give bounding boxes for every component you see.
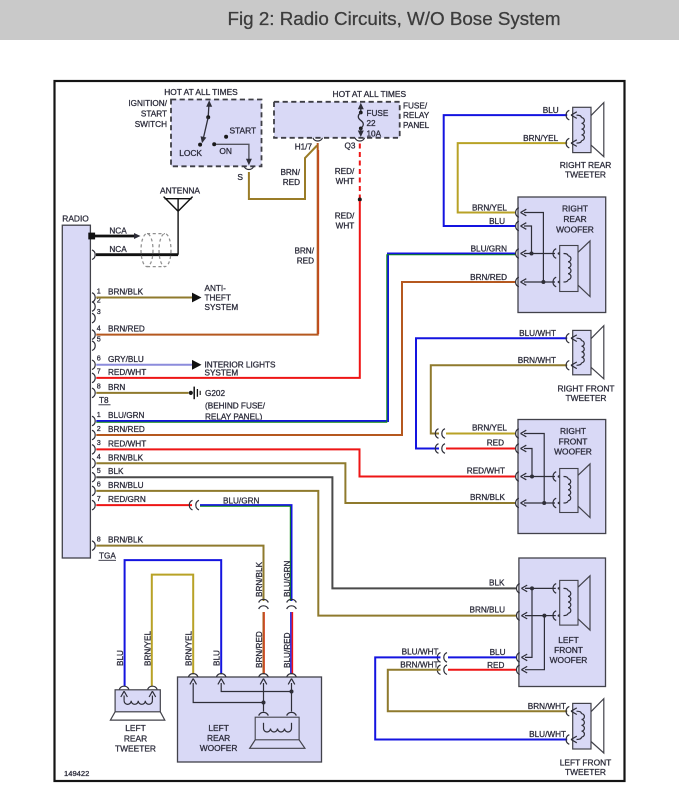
right rear woofer internal wiring BLU to BLU/GRN xyxy=(524,226,532,254)
svg-text:LEFT: LEFT xyxy=(125,723,145,733)
fuse/relay panel box xyxy=(274,102,400,138)
right rear tweeter speaker xyxy=(573,107,591,152)
svg-text:BRN/YEL: BRN/YEL xyxy=(143,631,152,666)
wire BRN/YEL into right front woofer xyxy=(446,433,515,435)
arrow to interior lights system xyxy=(192,360,202,370)
right rear woofer internal wiring BRN/YEL to BRN/RED xyxy=(524,213,543,283)
left rear woofer speaker xyxy=(259,712,269,715)
svg-text:6: 6 xyxy=(97,480,101,489)
svg-text:BRN/BLK: BRN/BLK xyxy=(108,453,144,462)
left front woofer box xyxy=(519,558,606,687)
wire BRN/RED from H1/7 down to radio pin T8-4 xyxy=(96,143,317,335)
radio pin TGA-5 xyxy=(92,472,95,482)
svg-text:10A: 10A xyxy=(367,130,382,139)
svg-text:BRN/YEL: BRN/YEL xyxy=(523,134,558,143)
svg-text:149422: 149422 xyxy=(64,769,89,778)
svg-text:REAR: REAR xyxy=(207,733,230,743)
svg-text:WHT: WHT xyxy=(336,177,355,186)
wire BRN/WHT right front woofer loop to tweeter xyxy=(431,365,567,433)
left front woofer internal wiring BRN/BLU to RED xyxy=(542,614,546,618)
svg-text:8: 8 xyxy=(97,382,101,391)
svg-text:8: 8 xyxy=(97,534,101,543)
wire BRN/BLK radio T8-1 to anti-theft system xyxy=(96,297,194,299)
wire BRN/BLK radio TGA-4 to right front woofer xyxy=(96,463,515,503)
inline connector BRN/WHT to RED (left front) xyxy=(437,665,440,675)
antenna symbol xyxy=(164,197,193,255)
svg-text:BRN/RED: BRN/RED xyxy=(108,325,145,334)
svg-text:START: START xyxy=(141,110,167,119)
wire BLU into left front woofer xyxy=(448,656,516,658)
svg-text:BLU: BLU xyxy=(213,650,222,666)
ignition switch pivot node xyxy=(206,115,210,119)
svg-text:HOT AT ALL TIMES: HOT AT ALL TIMES xyxy=(164,87,238,97)
left front tweeter speaker xyxy=(573,703,591,749)
svg-text:BLK: BLK xyxy=(489,578,505,587)
svg-text:BRN/BLK: BRN/BLK xyxy=(108,288,144,297)
svg-text:H1/7: H1/7 xyxy=(295,143,313,152)
left rear woofer box xyxy=(178,677,322,762)
svg-text:4: 4 xyxy=(97,323,101,332)
ON contact node xyxy=(212,142,216,146)
right front woofer internal wire BRN/BLK to speaker xyxy=(524,502,555,504)
svg-text:BRN/RED: BRN/RED xyxy=(255,631,264,668)
svg-text:RELAY: RELAY xyxy=(403,111,430,120)
svg-text:TWEETER: TWEETER xyxy=(565,170,606,180)
svg-text:RIGHT: RIGHT xyxy=(560,426,586,436)
svg-text:ON: ON xyxy=(219,146,232,156)
radio pin TGA-1 xyxy=(92,416,95,426)
svg-text:WOOFER: WOOFER xyxy=(554,447,592,457)
wire RED into left front woofer xyxy=(448,669,516,671)
svg-text:RED: RED xyxy=(487,439,504,448)
svg-text:BRN: BRN xyxy=(108,383,125,392)
wire BRN radio T8-8 to ground G202 xyxy=(96,392,188,394)
left front woofer internal wire BRN/BLU to speaker xyxy=(525,615,544,617)
svg-text:BLU/RED: BLU/RED xyxy=(283,632,292,668)
wire NCA antenna lead (thick) xyxy=(96,253,178,256)
inline connector RED/GRN to BLU/GRN xyxy=(189,500,192,510)
left rear woofer pins xyxy=(188,674,198,677)
svg-text:RIGHT: RIGHT xyxy=(562,204,588,214)
wire ON contact to terminal S xyxy=(216,144,249,162)
svg-text:FUSE: FUSE xyxy=(367,109,389,118)
svg-text:FUSE/: FUSE/ xyxy=(403,102,428,111)
svg-text:BRN/RED: BRN/RED xyxy=(470,273,507,282)
header bar xyxy=(0,0,679,40)
right rear woofer speaker xyxy=(553,249,556,259)
wire GRY/BLU radio T8-6 to interior lights xyxy=(96,364,194,366)
right front tweeter speaker xyxy=(573,330,591,374)
svg-text:BRN/: BRN/ xyxy=(294,247,314,256)
svg-text:7: 7 xyxy=(97,367,101,376)
svg-text:TWEETER: TWEETER xyxy=(565,767,606,777)
right rear woofer box xyxy=(518,197,606,313)
svg-text:RELAY PANEL): RELAY PANEL) xyxy=(205,412,263,421)
svg-text:BLU/WHT: BLU/WHT xyxy=(529,730,566,739)
svg-text:BRN/: BRN/ xyxy=(280,168,300,177)
svg-text:TWEETER: TWEETER xyxy=(115,743,156,753)
svg-text:NCA: NCA xyxy=(109,245,127,254)
svg-text:ANTENNA: ANTENNA xyxy=(160,185,200,195)
svg-text:RADIO: RADIO xyxy=(62,214,89,224)
svg-text:BRN/YEL: BRN/YEL xyxy=(472,424,507,433)
radio pin TGA-6 xyxy=(92,486,95,496)
wire RED/WHT dashed from Q3 xyxy=(359,144,361,199)
svg-text:22: 22 xyxy=(367,119,377,128)
svg-text:FRONT: FRONT xyxy=(554,645,583,655)
svg-text:4: 4 xyxy=(97,452,101,461)
svg-text:HOT AT ALL TIMES: HOT AT ALL TIMES xyxy=(333,89,407,99)
svg-text:RED: RED xyxy=(283,178,300,187)
wire BRN/YEL left rear woofer loop to left rear tweeter xyxy=(152,575,193,686)
inline connector BLU/WHT to RED xyxy=(435,444,438,454)
svg-text:1: 1 xyxy=(97,410,101,419)
radio pin T8-6 xyxy=(92,360,95,370)
inline connector BRN/WHT to BRN/YEL xyxy=(435,429,438,439)
svg-text:1: 1 xyxy=(97,286,101,295)
wire ignition S to H1/7 xyxy=(249,146,317,200)
wire NCA radio output (thick) with arrow xyxy=(90,235,135,238)
inline connector BLU/WHT to BLU (left front) xyxy=(437,653,440,663)
svg-text:SYSTEM: SYSTEM xyxy=(205,303,239,312)
left rear tweeter speaker xyxy=(115,690,160,712)
wire BLU left rear woofer loop to left rear tweeter xyxy=(125,560,222,686)
right rear woofer internal wire BLU/GRN to speaker xyxy=(524,253,555,255)
radio NCA terminal square xyxy=(88,233,95,240)
svg-text:3: 3 xyxy=(97,307,101,316)
left rear woofer internal wiring BRN/YEL to BRN/RED xyxy=(193,683,263,703)
svg-text:BLU/GRN: BLU/GRN xyxy=(223,496,259,505)
svg-text:GRY/BLU: GRY/BLU xyxy=(108,355,144,364)
right front woofer pins xyxy=(516,429,519,439)
diagram border frame xyxy=(55,81,625,781)
right front woofer box xyxy=(518,420,606,534)
arrow to anti-theft system xyxy=(192,293,202,303)
ignition feed arrow to HOT AT ALL TIMES xyxy=(207,103,210,117)
svg-text:T8: T8 xyxy=(99,396,109,405)
radio pin TGA-7 xyxy=(92,500,95,510)
wire BLU/GRN radio TGA-1 to right rear woofer xyxy=(96,254,515,422)
svg-text:RED/: RED/ xyxy=(335,211,355,220)
svg-text:RED: RED xyxy=(297,257,314,266)
left front woofer internal wire BLK to speaker xyxy=(525,587,556,589)
wire BLU/WHT right front woofer loop to tweeter xyxy=(416,338,567,448)
svg-text:BRN/WHT: BRN/WHT xyxy=(518,356,556,365)
svg-text:FRONT: FRONT xyxy=(559,436,588,446)
svg-text:7: 7 xyxy=(97,494,101,503)
connector pin H1/7 xyxy=(313,138,323,141)
svg-text:RED/WHT: RED/WHT xyxy=(467,467,505,476)
svg-text:START: START xyxy=(229,125,256,135)
svg-text:BLU/GRN: BLU/GRN xyxy=(471,245,507,254)
LOCK contact node xyxy=(198,143,202,147)
right front woofer internal wiring BRN/YEL to BRN/BLK xyxy=(524,434,544,504)
wire BLK radio TGA-5 to left front woofer xyxy=(96,477,516,588)
radio pin TGA-2 xyxy=(92,430,95,440)
svg-text:WOOFER: WOOFER xyxy=(550,655,588,665)
wire BRN/YEL right rear woofer to right rear tweeter xyxy=(458,143,568,212)
svg-text:LEFT: LEFT xyxy=(208,723,228,733)
radio pin T8-7 xyxy=(92,373,95,383)
svg-text:LEFT: LEFT xyxy=(558,635,578,645)
svg-text:SYSTEM: SYSTEM xyxy=(205,369,239,378)
radio pin T8-4 xyxy=(92,330,95,340)
wire BRN/BLK radio TGA-8 to left rear woofer connector xyxy=(96,546,263,601)
svg-text:BLU: BLU xyxy=(490,648,506,657)
svg-text:3: 3 xyxy=(97,438,101,447)
svg-text:WOOFER: WOOFER xyxy=(556,225,594,235)
right rear woofer internal wire BRN/RED to speaker xyxy=(524,281,555,283)
ignition/start switch box xyxy=(171,100,262,167)
svg-text:BLU/WHT: BLU/WHT xyxy=(519,329,556,338)
radio pin TGA-8 xyxy=(92,541,95,551)
svg-text:IGNITION/: IGNITION/ xyxy=(128,99,167,108)
wire RED into right front woofer xyxy=(446,448,515,450)
inline connector BRN/BLK to BRN/RED xyxy=(259,599,269,602)
svg-text:S: S xyxy=(237,172,243,182)
wire BRN/RED radio TGA-2 to right rear woofer xyxy=(96,282,515,435)
svg-text:(BEHIND FUSE/: (BEHIND FUSE/ xyxy=(205,401,266,410)
wire RED/GRN radio TGA-7 xyxy=(96,504,192,506)
svg-text:TGA: TGA xyxy=(99,552,116,561)
svg-text:RED/WHT: RED/WHT xyxy=(108,368,146,377)
svg-text:5: 5 xyxy=(97,335,101,344)
radio pin T8-1 xyxy=(92,293,95,303)
svg-text:BRN/BLK: BRN/BLK xyxy=(470,493,506,502)
svg-text:BRN/BLU: BRN/BLU xyxy=(108,481,144,490)
radio pin NCA (2) xyxy=(92,250,95,260)
radio pin TGA-3 xyxy=(92,445,95,455)
svg-text:TWEETER: TWEETER xyxy=(566,393,607,403)
svg-text:BRN/YEL: BRN/YEL xyxy=(472,204,507,213)
svg-text:WHT: WHT xyxy=(336,221,355,230)
wire BRN/RED down to left rear woofer xyxy=(263,612,265,674)
START contact node xyxy=(224,135,228,139)
fuse 22 symbol xyxy=(358,103,364,110)
label BLK (left front woofer pin) xyxy=(516,584,519,594)
left rear woofer internal wiring BLU to BLU/RED xyxy=(221,683,291,692)
svg-text:BLU: BLU xyxy=(543,106,559,115)
radio pin T8-5 xyxy=(92,341,95,351)
svg-text:6: 6 xyxy=(97,354,101,363)
svg-text:BLU/WHT: BLU/WHT xyxy=(402,648,439,657)
svg-text:ANTI-: ANTI- xyxy=(205,284,227,293)
svg-text:Fig 2: Radio Circuits, W/O Bos: Fig 2: Radio Circuits, W/O Bose System xyxy=(228,8,561,29)
svg-text:2: 2 xyxy=(97,424,101,433)
wire RED/WHT radio TGA-3 to right front woofer xyxy=(96,449,515,476)
svg-text:BLU/GRN: BLU/GRN xyxy=(283,561,292,597)
svg-text:BRN/YEL: BRN/YEL xyxy=(185,631,194,666)
radio pin TGA-4 xyxy=(92,459,95,469)
svg-text:BLU: BLU xyxy=(489,217,505,226)
svg-text:G202: G202 xyxy=(205,389,225,398)
svg-text:LOCK: LOCK xyxy=(179,148,202,158)
left rear woofer internal wires to speaker xyxy=(263,683,265,712)
wire BLU/WHT loop to left front tweeter xyxy=(375,657,567,739)
left front woofer speaker xyxy=(553,584,556,594)
svg-text:BLK: BLK xyxy=(108,467,124,476)
svg-text:RED/WHT: RED/WHT xyxy=(108,439,146,448)
radio pin T8-8 xyxy=(92,388,95,398)
connector terminal S xyxy=(244,166,254,169)
svg-text:Q3: Q3 xyxy=(344,141,355,150)
svg-text:BRN/BLK: BRN/BLK xyxy=(255,561,264,597)
svg-text:SWITCH: SWITCH xyxy=(135,120,167,129)
svg-text:BLU/GRN: BLU/GRN xyxy=(108,411,144,420)
radio pin T8-2 xyxy=(92,302,95,312)
right front woofer speaker xyxy=(553,472,556,482)
wire BLU right rear woofer to right rear tweeter xyxy=(444,115,568,226)
inline connector BLU/GRN to BLU/RED xyxy=(287,599,297,602)
wire BRN/BLU radio TGA-6 to left front woofer xyxy=(96,491,516,616)
right front woofer internal wiring RED to RED/WHT xyxy=(524,449,532,477)
right rear woofer pins xyxy=(516,208,519,218)
svg-text:BRN/WHT: BRN/WHT xyxy=(528,702,566,711)
svg-text:BLU: BLU xyxy=(116,650,125,666)
connector pin Q3 xyxy=(355,138,365,141)
svg-text:BRN/BLK: BRN/BLK xyxy=(108,536,144,545)
svg-text:LEFT FRONT: LEFT FRONT xyxy=(560,758,612,768)
ignition switch lever arrow to LOCK xyxy=(203,117,208,138)
svg-text:NCA: NCA xyxy=(109,226,127,235)
svg-text:THEFT: THEFT xyxy=(205,294,231,303)
svg-text:WOOFER: WOOFER xyxy=(200,743,238,753)
ground G202 symbol xyxy=(189,391,193,395)
splice node on RED/WHT xyxy=(358,198,362,202)
wire BRN/WHT loop to left front tweeter xyxy=(388,670,567,712)
svg-text:REAR: REAR xyxy=(124,733,147,743)
svg-text:BRN/BLU: BRN/BLU xyxy=(470,606,506,615)
left front woofer internal wiring BLK to BLU xyxy=(525,587,532,589)
svg-text:REAR: REAR xyxy=(563,214,586,224)
svg-text:RED/: RED/ xyxy=(335,167,355,176)
svg-text:RIGHT REAR: RIGHT REAR xyxy=(560,160,612,170)
wire RED/WHT from splice down to radio pin T8-7 xyxy=(96,201,360,378)
svg-text:RIGHT FRONT: RIGHT FRONT xyxy=(557,384,614,394)
wire BLU/RED down to left rear woofer xyxy=(290,612,292,674)
svg-text:RED: RED xyxy=(487,661,504,670)
svg-text:BRN/WHT: BRN/WHT xyxy=(400,660,438,669)
radio box xyxy=(62,225,90,558)
svg-text:RED/GRN: RED/GRN xyxy=(108,495,146,504)
wire BLU/GRN to left rear woofer connector xyxy=(200,505,292,601)
svg-text:5: 5 xyxy=(97,466,101,475)
svg-text:PANEL: PANEL xyxy=(403,121,430,130)
right front woofer internal wire RED/WHT to speaker xyxy=(524,476,555,478)
svg-text:BRN/RED: BRN/RED xyxy=(108,425,145,434)
radio pin T8-3 xyxy=(92,313,95,323)
antenna coax shield (dashed cylinder) xyxy=(141,234,171,267)
